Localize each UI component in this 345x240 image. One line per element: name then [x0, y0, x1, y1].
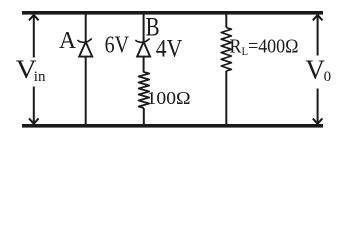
zener diode B cathode bar [136, 39, 150, 43]
V0 down arrow [313, 89, 323, 124]
Vin up arrow [29, 15, 39, 58]
svg-text:in: in [34, 69, 46, 85]
V0 up arrow [313, 15, 323, 56]
wire (diode B bottom to resistor) [143, 57, 145, 73]
svg-text:0: 0 [324, 69, 332, 85]
top rail (node between Vin+, diodes, RL) [22, 11, 323, 15]
wire (RL bottom) [225, 71, 227, 124]
svg-text:RL=400Ω: RL=400Ω [230, 35, 299, 58]
resistor 100 ohm zigzag [139, 72, 150, 108]
svg-text:100Ω: 100Ω [147, 88, 191, 108]
bottom rail (common return wire) [22, 124, 323, 128]
wire (RL top) [225, 14, 227, 28]
Vin down arrow [29, 87, 39, 124]
svg-text:6V: 6V [105, 33, 130, 59]
wire (diode A top) [85, 14, 87, 42]
resistor RL zigzag [221, 28, 231, 72]
zener diode B triangle [137, 42, 150, 57]
svg-text:A: A [59, 28, 77, 54]
svg-text:V: V [305, 55, 325, 85]
wire (diode B top) [143, 14, 145, 42]
zener diode A cathode bar [78, 39, 92, 43]
wire (resistor bottom) [143, 108, 145, 124]
zener diode A triangle [79, 42, 92, 57]
svg-text:4V: 4V [156, 36, 183, 63]
wire (diode A bottom) [85, 57, 87, 124]
